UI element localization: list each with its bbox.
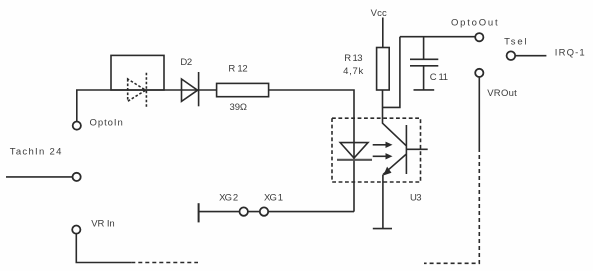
svg-text:OptoIn: OptoIn	[90, 117, 123, 128]
svg-text:IRQ-1: IRQ-1	[555, 48, 585, 59]
svg-text:XG 1: XG 1	[264, 193, 283, 204]
svg-text:Tsel: Tsel	[504, 37, 526, 48]
svg-text:VR In: VR In	[91, 219, 114, 230]
svg-text:C 11: C 11	[430, 72, 448, 83]
svg-text:D 2: D 2	[180, 57, 192, 68]
svg-text:Vcc: Vcc	[371, 8, 387, 19]
svg-text:R 13: R 13	[344, 53, 362, 64]
svg-text:R 12: R 12	[228, 63, 247, 74]
svg-text:39Ω: 39Ω	[230, 102, 248, 113]
svg-text:TachIn 24: TachIn 24	[10, 146, 62, 157]
svg-text:OptoOut: OptoOut	[451, 18, 498, 29]
svg-text:4,7k: 4,7k	[343, 66, 363, 77]
svg-text:XG 2: XG 2	[219, 193, 238, 204]
svg-text:U 3: U 3	[410, 192, 422, 203]
svg-text:VROut: VROut	[487, 88, 517, 99]
